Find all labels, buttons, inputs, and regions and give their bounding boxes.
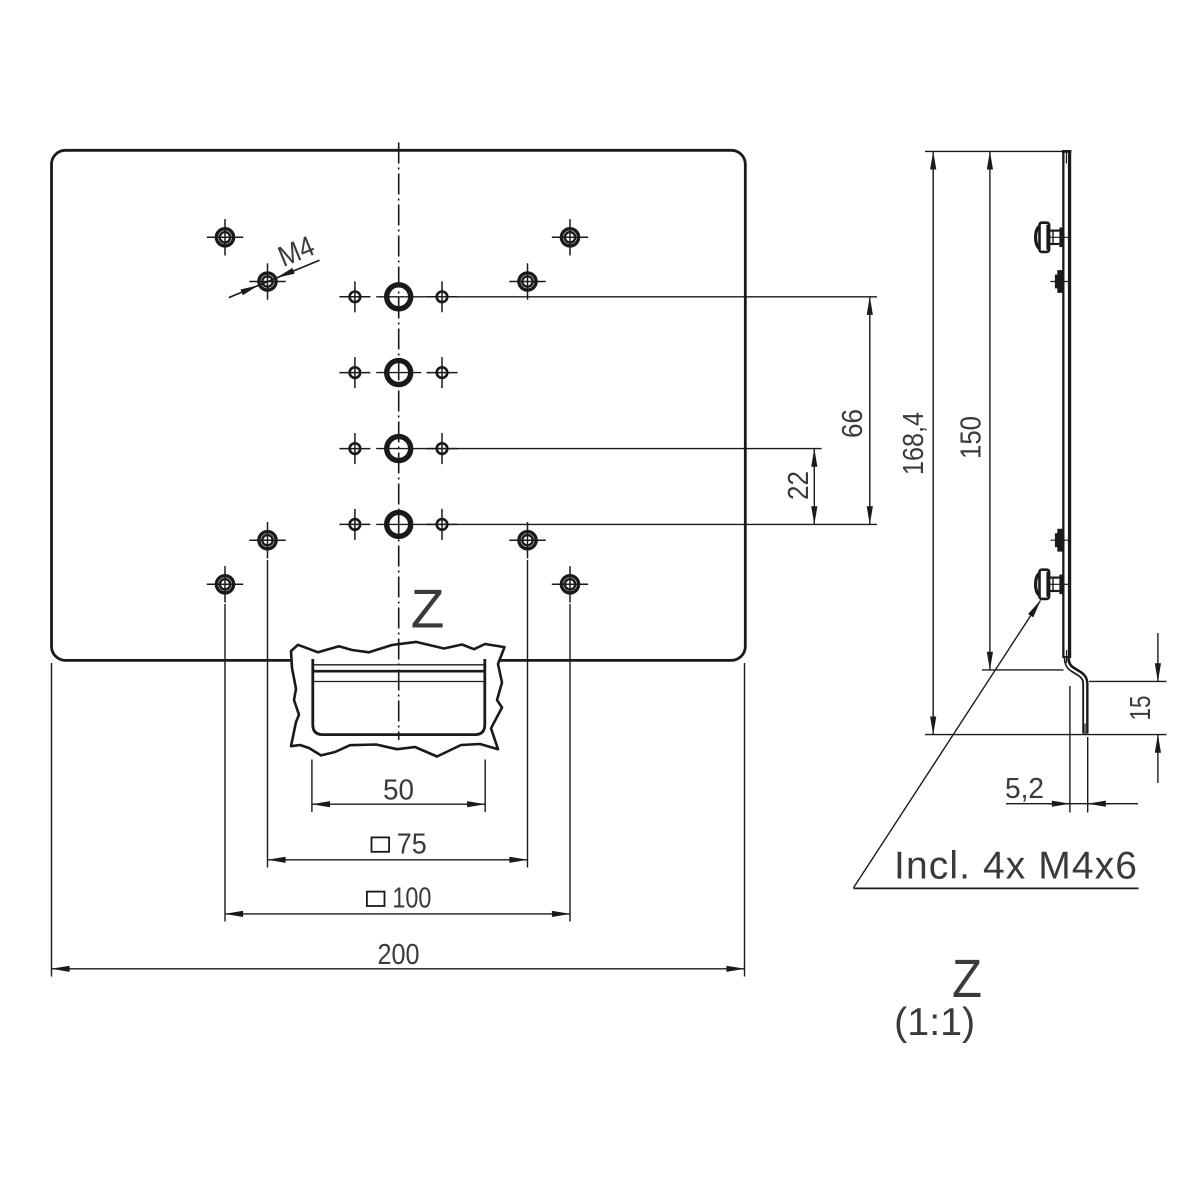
M4 threaded hole VESA75 top-right xyxy=(509,263,545,299)
svg-text:Z: Z xyxy=(952,949,982,1009)
15 dim top extension line xyxy=(1089,680,1167,682)
flank hole row2 right xyxy=(427,357,458,388)
row3 crosshair + extension to 22 dim xyxy=(376,448,821,450)
side view inner edge short line xyxy=(1066,650,1068,663)
side view sheet bend and foot xyxy=(1067,656,1086,734)
M4 threaded hole VESA100 top-left xyxy=(207,219,243,255)
slot top thin line xyxy=(313,664,485,666)
center hole row2 xyxy=(387,361,411,385)
svg-text:22: 22 xyxy=(783,471,815,500)
slot mid thin line xyxy=(313,681,485,683)
flank hole row1 left xyxy=(339,281,370,312)
M4 threaded hole VESA75 bottom-right xyxy=(509,522,545,558)
flank hole row3 right xyxy=(427,433,458,464)
svg-text:100: 100 xyxy=(392,883,431,915)
dimension 15 xyxy=(1157,633,1159,783)
hidden screw side view bottom xyxy=(1051,529,1071,552)
svg-text:200: 200 xyxy=(378,939,420,971)
M4 threaded hole VESA75 top-left xyxy=(249,263,285,299)
slot left stub xyxy=(311,659,314,666)
side view inner edge at foot end xyxy=(1084,724,1086,734)
150 dim bottom extension line xyxy=(982,669,1064,671)
168.4 dim bottom extension line xyxy=(925,734,1167,736)
svg-text:75: 75 xyxy=(397,829,427,861)
row1 crosshair + extension to 66 dim xyxy=(376,296,877,298)
row4 crosshair + extension xyxy=(376,523,877,525)
center hole row3 xyxy=(387,437,411,461)
slot U outline xyxy=(313,665,485,735)
note underline xyxy=(854,887,1139,889)
flank hole row1 right xyxy=(427,281,458,312)
extension lines 200 dim xyxy=(51,663,53,977)
dimension 66 xyxy=(869,297,871,525)
side view inner edge at top xyxy=(1065,151,1067,163)
dimension 5,2 xyxy=(1006,686,1138,813)
row2 crosshair xyxy=(376,372,421,374)
svg-text:168,4: 168,4 xyxy=(898,412,930,475)
slot right stub xyxy=(483,659,486,666)
svg-text:Incl. 4x M4x6: Incl. 4x M4x6 xyxy=(894,845,1137,888)
flank hole row3 left xyxy=(339,433,370,464)
svg-text:Z: Z xyxy=(411,578,445,640)
flank hole row4 right xyxy=(427,509,458,540)
plate front view outline xyxy=(52,150,746,660)
side view top edge / extension line xyxy=(925,150,1064,152)
dimension square-75 xyxy=(268,859,528,861)
slot thick top line xyxy=(313,670,485,673)
dimension 150 xyxy=(989,151,991,670)
svg-text:66: 66 xyxy=(837,409,869,438)
dimension 200 xyxy=(52,968,745,970)
center hole row4 xyxy=(387,512,411,536)
dimension 22 xyxy=(813,449,815,525)
front view vertical centerline xyxy=(398,143,400,741)
leader line to screw (Incl. note) xyxy=(854,601,1041,888)
dimension 168,4 xyxy=(932,151,934,734)
center hole row1 xyxy=(387,285,411,309)
M4x6 screw side view bottom xyxy=(1036,570,1071,599)
extension lines 50 dim xyxy=(311,760,313,813)
svg-text:50: 50 xyxy=(383,774,414,806)
dimension 50 xyxy=(312,803,485,805)
flank hole row4 left xyxy=(339,509,370,540)
svg-text:M4: M4 xyxy=(274,230,319,273)
svg-text:5,2: 5,2 xyxy=(1005,773,1044,805)
M4x6 screw side view top xyxy=(1036,223,1071,252)
flank hole row2 left xyxy=(339,357,370,388)
dimension square-100 xyxy=(225,913,570,915)
M4 leader line xyxy=(229,260,320,297)
svg-text:15: 15 xyxy=(1125,696,1157,721)
svg-text:150: 150 xyxy=(956,416,988,459)
detail Z break-out blob xyxy=(291,642,505,757)
M4 threaded hole VESA75 bottom-left xyxy=(249,522,285,558)
hidden screw side view top xyxy=(1051,270,1071,293)
M4 threaded hole VESA100 bottom-left xyxy=(207,566,243,602)
extension lines 100 dim xyxy=(224,604,226,922)
svg-text:(1:1): (1:1) xyxy=(894,1001,975,1044)
M4 threaded hole VESA100 bottom-right xyxy=(552,566,588,602)
extension lines 75 dim xyxy=(267,560,269,868)
side view sheet cross-section straight part xyxy=(1062,151,1071,658)
M4 threaded hole VESA100 top-right xyxy=(552,219,588,255)
